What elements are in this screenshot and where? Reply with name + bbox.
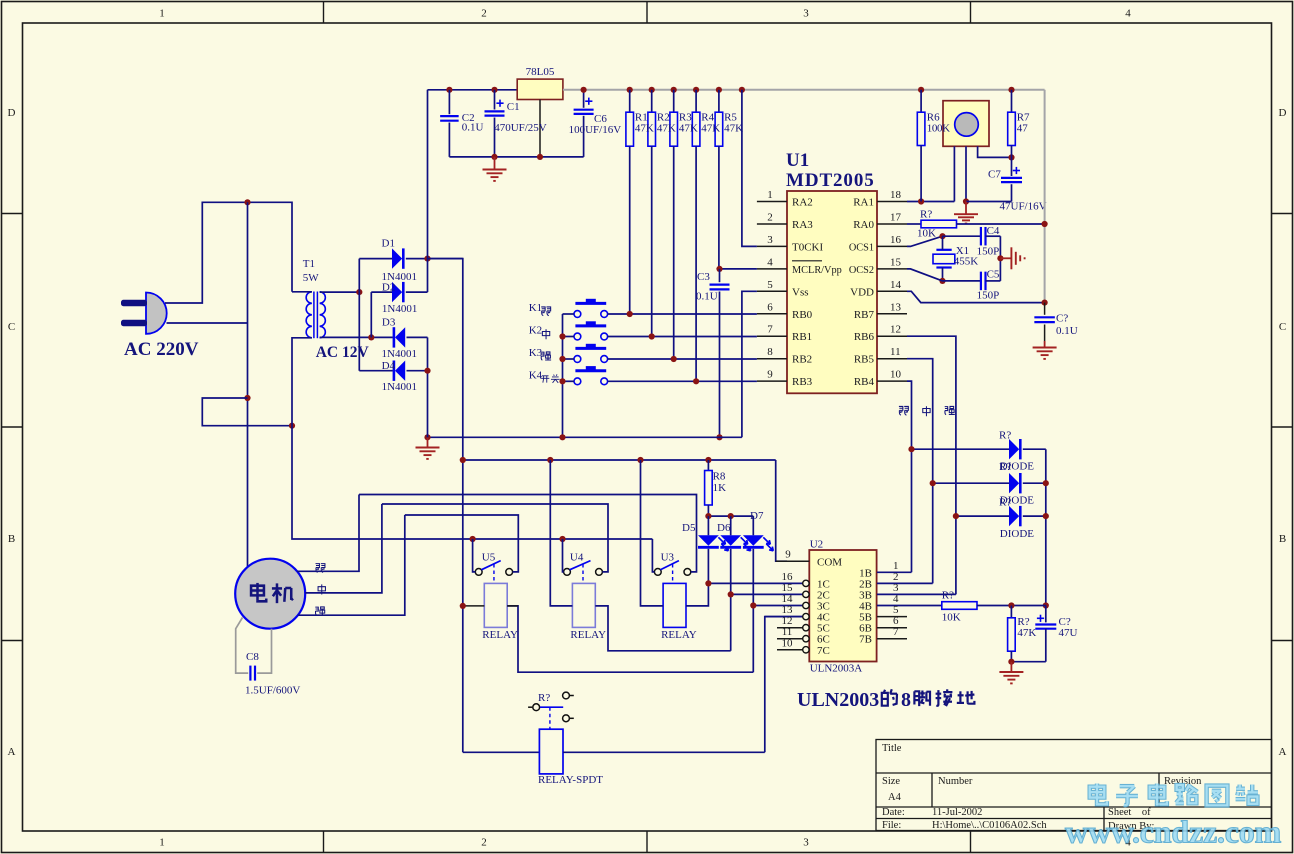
junction C3 gnd bbox=[716, 434, 722, 440]
junction R2 +5V bbox=[649, 87, 655, 93]
wire motor weak bbox=[297, 495, 359, 572]
U2 pin 11 6C bbox=[777, 638, 803, 640]
svg-text:U1: U1 bbox=[786, 150, 809, 171]
junction VDD +5V bbox=[1042, 300, 1048, 306]
resistor R6 100K bbox=[920, 90, 922, 112]
svg-text:D4: D4 bbox=[382, 360, 396, 372]
wire +12V rail to 78L05 input bbox=[428, 89, 518, 91]
ground bottom bbox=[1010, 662, 1012, 672]
junction R8 feed bbox=[705, 457, 711, 463]
U1 pin 12 RB6 bbox=[877, 335, 907, 337]
svg-text:100K: 100K bbox=[927, 123, 950, 135]
ground power supply bbox=[494, 157, 496, 169]
resistor R? 10K (RA0) bbox=[921, 220, 957, 228]
svg-text:R?: R? bbox=[1017, 616, 1029, 628]
wire K3 to RB2 bbox=[608, 358, 757, 360]
svg-text:1: 1 bbox=[159, 837, 165, 849]
buzzer LS1 bbox=[943, 101, 989, 147]
ground buzzer bbox=[965, 202, 967, 214]
wire K4 to RB3 bbox=[608, 380, 757, 382]
wire LED anode rail bbox=[708, 515, 753, 517]
wire U3 coil left bbox=[641, 460, 664, 606]
svg-text:100UF/16V: 100UF/16V bbox=[569, 124, 622, 136]
U2 pin 12 5C bbox=[777, 627, 803, 629]
U2 pin 15 2C bbox=[731, 593, 803, 595]
svg-text:RB5: RB5 bbox=[854, 354, 875, 366]
U2 pin 9 COM bbox=[776, 560, 810, 562]
svg-text:17: 17 bbox=[890, 212, 902, 224]
svg-text:D: D bbox=[1279, 107, 1287, 119]
junction gnd bottom bbox=[1008, 659, 1014, 665]
capacitor C8 1.5UF/600V bbox=[236, 618, 249, 674]
wire C4-C5 join bbox=[999, 236, 1001, 281]
wire VDD row bbox=[907, 291, 1045, 302]
svg-text:4: 4 bbox=[767, 256, 773, 268]
svg-text:7: 7 bbox=[767, 324, 773, 336]
ground oscillator rotated bbox=[1000, 257, 1011, 259]
U1 pin 4 MCLR/Vpp bbox=[757, 268, 787, 270]
U1 pin 13 RB7 bbox=[877, 313, 907, 315]
svg-text:R?: R? bbox=[999, 430, 1011, 442]
junction motor feed bbox=[244, 199, 250, 205]
svg-text:7B: 7B bbox=[859, 634, 872, 646]
wire D6 cathode to 2C bbox=[730, 594, 732, 650]
svg-text:D: D bbox=[8, 107, 16, 119]
svg-text:1.5UF/600V: 1.5UF/600V bbox=[245, 684, 300, 696]
svg-text:U5: U5 bbox=[482, 551, 496, 563]
svg-text:RB1: RB1 bbox=[792, 331, 812, 343]
svg-text:AC 12V: AC 12V bbox=[316, 344, 370, 361]
svg-text:B: B bbox=[1279, 533, 1286, 545]
relay U4 contacts bbox=[564, 569, 571, 576]
diode D3 1N4001 bbox=[371, 336, 393, 338]
wire COM drop bbox=[776, 460, 787, 561]
wire RA0 row to R bbox=[907, 223, 921, 225]
wire U4 NO contact bbox=[563, 539, 564, 572]
U1 pin 14 VDD bbox=[877, 290, 907, 292]
wire K2 left bbox=[563, 336, 575, 338]
junction X1 bottom bbox=[939, 278, 945, 284]
capacitor C4 150P bbox=[943, 235, 981, 237]
wire Vss pin5 bbox=[742, 291, 757, 437]
svg-text:47K: 47K bbox=[1017, 627, 1036, 639]
svg-text:Size: Size bbox=[882, 776, 900, 787]
svg-text:8: 8 bbox=[901, 689, 911, 711]
svg-text:DIODE: DIODE bbox=[1000, 528, 1034, 540]
junction neutral branch bbox=[244, 395, 250, 401]
wire U5 NO contact bbox=[473, 539, 476, 572]
svg-text:File:: File: bbox=[882, 820, 901, 831]
junction R3 +5V bbox=[671, 87, 677, 93]
capacitor C5 150P bbox=[943, 280, 981, 282]
wire RB6 drop strong bbox=[907, 336, 956, 594]
svg-text:T0CKI: T0CKI bbox=[792, 241, 824, 253]
U1 pin 2 RA3 bbox=[757, 223, 787, 225]
svg-text:11: 11 bbox=[890, 346, 901, 358]
svg-text:1N4001: 1N4001 bbox=[382, 348, 417, 360]
svg-text:Title: Title bbox=[882, 743, 902, 754]
junction D4 anode bbox=[424, 368, 430, 374]
svg-text:C?: C? bbox=[1056, 312, 1068, 324]
svg-text:12: 12 bbox=[890, 324, 901, 336]
svg-text:10: 10 bbox=[890, 369, 902, 381]
U1 pin 15 OCS2 bbox=[877, 268, 907, 270]
svg-text:C5: C5 bbox=[987, 269, 1000, 281]
op-amp U1 MDT2005 body bbox=[787, 191, 877, 393]
plug AC 220V bbox=[146, 293, 167, 334]
svg-text:RB6: RB6 bbox=[854, 331, 875, 343]
junction rectifier gnd bbox=[424, 434, 430, 440]
svg-text:RELAY: RELAY bbox=[482, 629, 518, 641]
junction transformer primary bottom bbox=[289, 423, 295, 429]
wire primary top bbox=[292, 291, 312, 293]
diode D2 1N4001 bbox=[371, 291, 392, 293]
svg-text:1K: 1K bbox=[713, 482, 727, 494]
led D7 bbox=[752, 516, 754, 535]
svg-text:47K: 47K bbox=[701, 123, 720, 135]
wire secondary top bbox=[320, 291, 359, 293]
svg-text:RB3: RB3 bbox=[792, 376, 813, 388]
svg-text:C1: C1 bbox=[507, 101, 520, 113]
U1 pin 5 Vss bbox=[757, 290, 787, 292]
svg-text:4: 4 bbox=[1125, 8, 1131, 20]
svg-text:47UF/16V: 47UF/16V bbox=[1000, 200, 1047, 212]
wire K1 to RB0 bbox=[608, 313, 757, 315]
svg-text:RELAY-SPDT: RELAY-SPDT bbox=[538, 774, 603, 786]
svg-text:MDT2005: MDT2005 bbox=[786, 170, 875, 191]
svg-text:ULN2003: ULN2003 bbox=[797, 689, 879, 711]
svg-text:K2: K2 bbox=[529, 325, 542, 337]
wire K3 left bbox=[563, 358, 575, 360]
svg-text:C4: C4 bbox=[987, 225, 1000, 237]
svg-text:2: 2 bbox=[481, 8, 487, 20]
junction RA0 +5V bbox=[1042, 221, 1048, 227]
wire power gnd rail bbox=[449, 156, 583, 158]
svg-text:16: 16 bbox=[890, 234, 902, 246]
ground logic bbox=[427, 437, 429, 447]
svg-text:10: 10 bbox=[782, 637, 794, 649]
junction cathode row3 bbox=[1043, 513, 1049, 519]
wire plug neutral bbox=[167, 322, 248, 324]
wire K1 left bbox=[563, 313, 575, 315]
wire neutral to relay contacts bbox=[292, 426, 652, 539]
U2 pin 13 4C bbox=[765, 616, 803, 618]
svg-text:8: 8 bbox=[767, 346, 773, 358]
svg-text:C: C bbox=[8, 321, 15, 333]
junction U5 coil bbox=[460, 603, 466, 609]
svg-text:RA0: RA0 bbox=[853, 219, 874, 231]
U2 pin 1 1B bbox=[877, 571, 912, 573]
wire +12V vertical bbox=[427, 90, 429, 292]
svg-text:D1: D1 bbox=[382, 237, 395, 249]
svg-text:0.1U: 0.1U bbox=[696, 291, 718, 303]
svg-text:11-Jul-2002: 11-Jul-2002 bbox=[932, 807, 982, 818]
svg-text:RB0: RB0 bbox=[792, 309, 813, 321]
junction U4 NO bbox=[559, 536, 565, 542]
svg-text:14: 14 bbox=[890, 279, 902, 291]
svg-text:R?: R? bbox=[942, 589, 954, 601]
U1 pin 7 RB1 bbox=[757, 335, 787, 337]
wire U3 NO contact bbox=[652, 539, 654, 572]
svg-text:1: 1 bbox=[159, 8, 165, 20]
svg-text:OCS2: OCS2 bbox=[849, 265, 874, 276]
wire secondary bottom bbox=[320, 336, 372, 338]
capacitor C7 47UF/16V bbox=[1001, 177, 1022, 179]
U2 pin 2 2B bbox=[877, 582, 933, 584]
U1 pin 16 OCS1 bbox=[877, 245, 907, 247]
svg-text:2: 2 bbox=[481, 837, 487, 849]
junction X1 top bbox=[939, 233, 945, 239]
junction switch rail gnd bbox=[559, 434, 565, 440]
U2 pin 7 7B bbox=[877, 638, 907, 640]
capacitor C6 bbox=[583, 90, 585, 108]
svg-text:1N4001: 1N4001 bbox=[382, 303, 417, 315]
capacitor C3 0.1U bbox=[719, 269, 721, 282]
junction gnd C1 bbox=[491, 154, 497, 160]
relay U4 coil bbox=[572, 583, 595, 627]
resistor R8 1K bbox=[707, 460, 709, 471]
U2 pin 14 3C bbox=[753, 605, 802, 607]
diode R? DIODE row1 bbox=[912, 448, 1010, 450]
svg-text:150P: 150P bbox=[977, 246, 1000, 258]
switch K4 bbox=[574, 378, 581, 385]
svg-text:C8: C8 bbox=[246, 651, 259, 663]
U1 pin 6 RB0 bbox=[757, 313, 787, 315]
svg-text:R8: R8 bbox=[713, 471, 726, 483]
relay U5 contacts bbox=[475, 569, 482, 576]
junction R7 +5V bbox=[1008, 87, 1014, 93]
svg-text:7: 7 bbox=[893, 626, 899, 638]
capacitor C2 bbox=[448, 90, 450, 114]
svg-text:0.1U: 0.1U bbox=[462, 122, 484, 134]
svg-text:Vss: Vss bbox=[792, 286, 809, 298]
svg-text:OCS1: OCS1 bbox=[849, 242, 874, 253]
svg-text:R?: R? bbox=[920, 209, 932, 221]
junction R5 +5V bbox=[716, 87, 722, 93]
U2 pin 10 7C bbox=[777, 649, 803, 651]
svg-text:Date:: Date: bbox=[882, 807, 905, 818]
wire +12V relay rail bbox=[463, 459, 776, 461]
junction C6 +5V bbox=[581, 87, 587, 93]
svg-text:47K: 47K bbox=[635, 123, 654, 135]
wire K4 left bbox=[563, 380, 575, 382]
wire RB4 drop weak bbox=[907, 381, 912, 572]
capacitor C1 bbox=[494, 90, 496, 110]
svg-text:C: C bbox=[1279, 321, 1286, 333]
resistor R3 47K bbox=[673, 90, 675, 112]
svg-text:D7: D7 bbox=[750, 510, 764, 522]
svg-text:H:\Home\..\C0106A02.Sch: H:\Home\..\C0106A02.Sch bbox=[932, 820, 1047, 831]
svg-text:13: 13 bbox=[890, 301, 902, 313]
wire buzzer pin2 bbox=[965, 146, 967, 201]
junction D1 cathode bbox=[424, 256, 430, 262]
svg-text:RA3: RA3 bbox=[792, 219, 813, 231]
switch K2 bbox=[574, 333, 581, 340]
svg-text:10K: 10K bbox=[942, 612, 961, 624]
junction R1 +5V bbox=[627, 87, 633, 93]
led D6 bbox=[730, 516, 732, 535]
svg-text:MCLR/Vpp: MCLR/Vpp bbox=[792, 265, 842, 276]
relay U3 contacts bbox=[654, 569, 661, 576]
wire T0CKI from +5V bbox=[742, 90, 757, 247]
junction C1 rail bbox=[491, 87, 497, 93]
svg-text:VDD: VDD bbox=[850, 286, 874, 298]
svg-text:RA2: RA2 bbox=[792, 197, 813, 209]
svg-text:K4: K4 bbox=[529, 369, 543, 381]
svg-text:47K: 47K bbox=[724, 123, 743, 135]
resistor R1 47K bbox=[629, 90, 631, 112]
U2 pin 3 3B bbox=[877, 593, 956, 595]
svg-text:RELAY: RELAY bbox=[661, 629, 697, 641]
svg-text:150P: 150P bbox=[977, 290, 1000, 302]
ground VDD cap bbox=[1044, 341, 1046, 347]
U1 pin 17 RA0 bbox=[877, 223, 907, 225]
wire D1-D4 link bbox=[358, 259, 360, 371]
wire OCS2 diagonal bbox=[907, 269, 943, 281]
svg-text:R?: R? bbox=[999, 461, 1011, 473]
wire MCLR pin4 bbox=[720, 268, 757, 270]
svg-text:3: 3 bbox=[803, 837, 809, 849]
svg-text:T1: T1 bbox=[303, 258, 315, 270]
crystal X1 455K bbox=[936, 249, 951, 251]
wire switch ground rail vertical bbox=[562, 314, 564, 437]
svg-text:C3: C3 bbox=[697, 271, 710, 283]
wire RA1 row bbox=[907, 201, 954, 203]
U1 pin 1 RA2 bbox=[757, 201, 787, 203]
svg-text:RELAY: RELAY bbox=[570, 629, 606, 641]
wire buzzer pin1 bbox=[953, 146, 955, 201]
watermark cndzz logo bbox=[1065, 784, 1282, 850]
svg-text:D6: D6 bbox=[717, 522, 731, 534]
svg-text:D5: D5 bbox=[682, 522, 696, 534]
junction cathode row2 bbox=[1043, 480, 1049, 486]
junction U3 coil feed bbox=[637, 457, 643, 463]
resistor R? 10K (4B) bbox=[942, 602, 977, 610]
svg-text:6: 6 bbox=[767, 301, 773, 313]
resistor R4 47K bbox=[695, 90, 697, 112]
U1 pin 8 RB2 bbox=[757, 358, 787, 360]
wire logic ground rail bbox=[428, 436, 742, 438]
U2 pin 5 5B bbox=[877, 616, 907, 618]
wire U4 coil right bbox=[595, 606, 730, 651]
wire K2 to RB1 bbox=[608, 336, 757, 338]
svg-text:47K: 47K bbox=[657, 123, 676, 135]
wire +5V gray rail bbox=[563, 89, 1045, 91]
diode R? DIODE row2 bbox=[933, 482, 1009, 484]
svg-text:0.1U: 0.1U bbox=[1056, 325, 1078, 337]
svg-text:Number: Number bbox=[938, 776, 973, 787]
svg-text:455K: 455K bbox=[954, 255, 979, 267]
svg-text:15: 15 bbox=[890, 256, 902, 268]
diode D4 1N4001 bbox=[359, 370, 393, 372]
label mid bbox=[923, 406, 930, 416]
junction R7 bottom bbox=[1008, 154, 1014, 160]
svg-text:A4: A4 bbox=[888, 792, 902, 803]
U1 pin 3 T0CKI bbox=[757, 245, 787, 247]
svg-text:K1: K1 bbox=[529, 302, 542, 314]
wire D7 cathode to 3C bbox=[752, 606, 754, 673]
led D5 bbox=[707, 516, 709, 535]
svg-text:A: A bbox=[1279, 746, 1287, 758]
U1 pin 11 RB5 bbox=[877, 358, 907, 360]
motor M1 dianji bbox=[235, 559, 305, 629]
junction MCLR C3 bbox=[716, 266, 722, 272]
svg-text:U4: U4 bbox=[570, 551, 584, 563]
svg-text:1: 1 bbox=[767, 189, 773, 201]
resistor R5 47K bbox=[718, 90, 720, 112]
svg-text:9: 9 bbox=[767, 369, 773, 381]
junction D6 anode bbox=[728, 513, 734, 519]
wire buzzer pin3 bbox=[978, 146, 1012, 157]
svg-text:1N4001: 1N4001 bbox=[382, 381, 417, 393]
wire rectifier negative vertical bbox=[427, 337, 429, 437]
label strong bbox=[945, 406, 955, 414]
svg-text:5: 5 bbox=[767, 279, 773, 291]
U2 pin 16 1C bbox=[708, 582, 802, 584]
regulator 78L05 bbox=[517, 79, 563, 99]
svg-text:AC 220V: AC 220V bbox=[124, 339, 199, 360]
svg-text:R?: R? bbox=[999, 496, 1011, 508]
svg-text:B: B bbox=[8, 533, 15, 545]
svg-text:18: 18 bbox=[890, 189, 902, 201]
wire D2-D3 link bbox=[370, 292, 372, 337]
wire R47K C47U gnd bbox=[1011, 661, 1045, 663]
svg-text:K3: K3 bbox=[529, 347, 543, 359]
svg-text:470UF/25V: 470UF/25V bbox=[494, 122, 547, 134]
junction R4 +5V bbox=[693, 87, 699, 93]
wire neutral loop bbox=[202, 398, 292, 426]
capacitor C? 0.1U (VDD) bbox=[1044, 303, 1046, 315]
wire U5 coil left bbox=[463, 605, 485, 607]
relay R? RELAY-SPDT coil bbox=[539, 729, 563, 774]
svg-text:7C: 7C bbox=[817, 645, 830, 657]
svg-text:9: 9 bbox=[785, 549, 791, 561]
U1 pin 18 RA1 bbox=[877, 201, 907, 203]
wire motor strong bbox=[298, 515, 405, 615]
svg-text:ULN2003A: ULN2003A bbox=[810, 663, 863, 675]
switch K3 bbox=[574, 356, 581, 363]
wire OCS1 diagonal bbox=[907, 236, 943, 246]
diode R? DIODE row3 bbox=[956, 515, 1009, 517]
label weak bbox=[899, 406, 908, 415]
switch K1 bbox=[574, 311, 581, 318]
wire SPDT coil right to 4C bbox=[563, 751, 765, 753]
junction relay rail left bbox=[460, 457, 466, 463]
svg-text:R?: R? bbox=[538, 692, 550, 704]
U2 pin 6 6B bbox=[877, 627, 907, 629]
junction cathode cap bbox=[1043, 602, 1049, 608]
wire motor feed vertical bbox=[247, 202, 249, 567]
junction gnd 78L05 bbox=[537, 154, 543, 160]
svg-text:C7: C7 bbox=[988, 169, 1001, 181]
svg-text:D2: D2 bbox=[382, 282, 395, 294]
svg-text:U3: U3 bbox=[661, 551, 675, 563]
svg-text:47: 47 bbox=[1017, 123, 1028, 135]
junction C2 rail bbox=[446, 87, 452, 93]
svg-text:U2: U2 bbox=[810, 539, 823, 551]
capacitor C? 47U bbox=[1045, 606, 1047, 623]
U2 pin 4 4B bbox=[877, 605, 942, 607]
junction R47K top bbox=[1008, 602, 1014, 608]
svg-text:47U: 47U bbox=[1059, 627, 1078, 639]
svg-text:www.cndzz.com: www.cndzz.com bbox=[1065, 814, 1282, 850]
wire motor mid to U4 common bbox=[382, 504, 608, 572]
wire motor weak to U3 common bbox=[359, 495, 697, 572]
wire U5 coil right bbox=[507, 606, 753, 672]
wire diode cathode bus bbox=[1045, 449, 1047, 605]
relay U5 coil bbox=[484, 583, 507, 627]
wire +12V bottom rail bbox=[463, 751, 540, 753]
